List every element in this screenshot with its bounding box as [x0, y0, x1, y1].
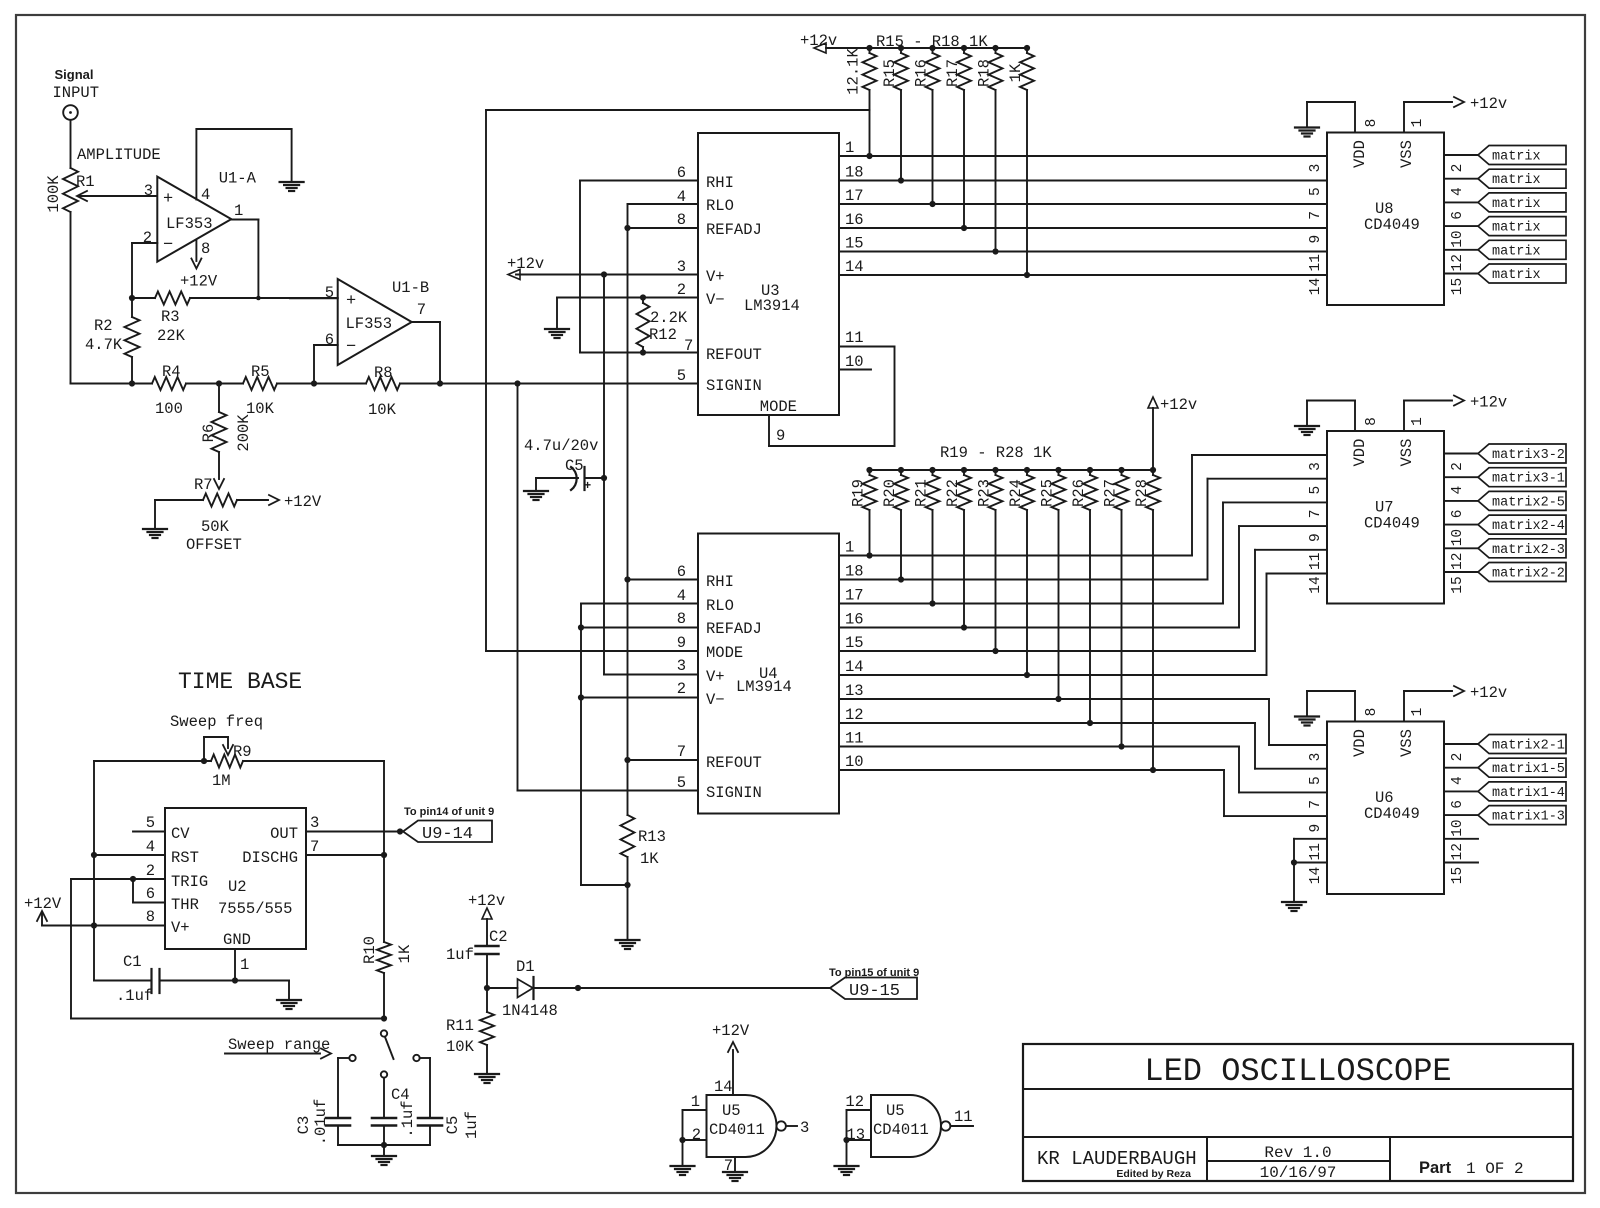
svg-text:matrix3-2: matrix3-2 — [1492, 448, 1565, 463]
svg-text:4.7K: 4.7K — [85, 336, 123, 354]
svg-text:1K: 1K — [640, 850, 659, 868]
svg-text:22K: 22K — [157, 327, 186, 345]
svg-text:3: 3 — [1308, 164, 1324, 173]
svg-text:TIME BASE: TIME BASE — [178, 669, 302, 695]
svg-text:matrix2-3: matrix2-3 — [1492, 543, 1565, 558]
svg-text:R2: R2 — [94, 317, 113, 335]
svg-text:18: 18 — [845, 563, 864, 581]
svg-text:7: 7 — [1308, 510, 1324, 519]
svg-text:6: 6 — [1450, 211, 1466, 220]
svg-text:3: 3 — [144, 182, 153, 200]
svg-text:matrix1-3: matrix1-3 — [1492, 810, 1565, 825]
svg-text:+12v: +12v — [1160, 396, 1197, 414]
svg-text:matrix: matrix — [1492, 197, 1541, 212]
svg-text:matrix3-1: matrix3-1 — [1492, 472, 1565, 487]
svg-text:6: 6 — [677, 164, 686, 182]
svg-text:4.7u/20v: 4.7u/20v — [524, 437, 598, 455]
svg-text:1: 1 — [1410, 708, 1426, 717]
svg-text:OFFSET: OFFSET — [186, 536, 242, 554]
svg-text:R27: R27 — [1102, 479, 1120, 507]
svg-text:100K: 100K — [45, 175, 63, 213]
svg-text:+12v: +12v — [1470, 95, 1507, 113]
svg-text:Sweep range: Sweep range — [228, 1036, 330, 1054]
svg-text:R26: R26 — [1070, 479, 1088, 507]
svg-text:U9-14: U9-14 — [422, 825, 473, 844]
svg-text:5: 5 — [1308, 187, 1324, 196]
svg-text:VSS: VSS — [1398, 140, 1416, 168]
svg-text:.1uf: .1uf — [399, 1100, 417, 1137]
svg-text:+12V: +12V — [284, 493, 322, 511]
svg-text:1K: 1K — [396, 944, 414, 963]
svg-text:17: 17 — [845, 187, 864, 205]
svg-text:1: 1 — [1410, 417, 1426, 426]
svg-text:1: 1 — [691, 1093, 700, 1111]
svg-text:200K: 200K — [235, 414, 253, 452]
svg-text:1K: 1K — [1007, 63, 1025, 82]
svg-text:R17: R17 — [944, 59, 962, 87]
svg-text:11: 11 — [1308, 553, 1324, 570]
svg-text:R24: R24 — [1007, 479, 1025, 507]
svg-text:12: 12 — [1450, 553, 1466, 570]
svg-text:12: 12 — [1450, 254, 1466, 271]
svg-text:VSS: VSS — [1398, 729, 1416, 757]
svg-text:100: 100 — [155, 400, 183, 418]
svg-text:MODE: MODE — [760, 398, 797, 416]
svg-text:16: 16 — [845, 611, 864, 629]
svg-text:LM3914: LM3914 — [744, 297, 800, 315]
svg-text:+12V: +12V — [180, 273, 218, 291]
svg-text:10: 10 — [845, 353, 864, 371]
svg-text:matrix1-5: matrix1-5 — [1492, 762, 1565, 777]
svg-text:C5: C5 — [444, 1116, 462, 1135]
svg-text:R13: R13 — [638, 828, 666, 846]
svg-text:4: 4 — [1450, 187, 1466, 196]
svg-text:4: 4 — [677, 188, 686, 206]
svg-text:7: 7 — [1308, 211, 1324, 220]
svg-text:7: 7 — [724, 1157, 733, 1175]
svg-text:R8: R8 — [374, 364, 393, 382]
svg-text:9: 9 — [1308, 533, 1324, 542]
svg-text:2.2K: 2.2K — [650, 309, 688, 327]
svg-text:3: 3 — [677, 657, 686, 675]
svg-text:3: 3 — [677, 258, 686, 276]
svg-text:REFADJ: REFADJ — [706, 221, 762, 239]
svg-text:10K: 10K — [446, 1038, 475, 1056]
svg-text:R6: R6 — [200, 424, 218, 443]
svg-text:Rev 1.0: Rev 1.0 — [1264, 1144, 1331, 1162]
svg-text:matrix2-2: matrix2-2 — [1492, 567, 1565, 582]
svg-text:R21: R21 — [913, 479, 931, 507]
svg-text:2: 2 — [1450, 753, 1466, 762]
svg-text:9: 9 — [776, 427, 785, 445]
svg-text:6: 6 — [677, 563, 686, 581]
svg-text:+12V: +12V — [24, 895, 62, 913]
svg-text:Sweep freq: Sweep freq — [170, 713, 263, 731]
svg-text:R16: R16 — [913, 59, 931, 87]
svg-text:14: 14 — [1308, 576, 1324, 593]
svg-text:V−: V− — [706, 291, 725, 309]
svg-text:VDD: VDD — [1351, 140, 1369, 168]
svg-text:R25: R25 — [1039, 479, 1057, 507]
svg-text:5: 5 — [1308, 776, 1324, 785]
svg-text:OUT: OUT — [270, 825, 298, 843]
svg-text:+12v: +12v — [507, 255, 544, 273]
svg-text:10K: 10K — [368, 401, 397, 419]
svg-text:+: + — [584, 479, 591, 493]
svg-text:matrix2-4: matrix2-4 — [1492, 519, 1565, 534]
svg-text:50K: 50K — [201, 518, 230, 536]
svg-text:+: + — [163, 190, 173, 209]
svg-text:5: 5 — [146, 814, 155, 832]
svg-text:CD4049: CD4049 — [1364, 805, 1420, 823]
svg-text:R10: R10 — [361, 936, 379, 964]
svg-text:MODE: MODE — [706, 644, 743, 662]
svg-text:LF353: LF353 — [166, 215, 213, 233]
svg-text:8: 8 — [677, 610, 686, 628]
svg-text:R5: R5 — [251, 363, 270, 381]
svg-text:RLO: RLO — [706, 597, 734, 615]
svg-text:RLO: RLO — [706, 197, 734, 215]
svg-text:10: 10 — [845, 753, 864, 771]
svg-text:14: 14 — [1308, 278, 1324, 295]
svg-text:R12: R12 — [649, 326, 677, 344]
svg-text:LM3914: LM3914 — [736, 678, 792, 696]
svg-text:18: 18 — [845, 164, 864, 182]
svg-text:To pin14 of unit 9: To pin14 of unit 9 — [404, 806, 494, 818]
svg-text:7: 7 — [310, 838, 319, 856]
svg-text:U2: U2 — [228, 878, 247, 896]
svg-text:1: 1 — [845, 539, 854, 557]
svg-text:11: 11 — [845, 730, 864, 748]
svg-text:10: 10 — [1450, 230, 1466, 247]
svg-text:DISCHG: DISCHG — [242, 849, 298, 867]
svg-text:4: 4 — [201, 186, 210, 204]
svg-text:3: 3 — [1308, 753, 1324, 762]
svg-text:6: 6 — [1450, 800, 1466, 809]
svg-text:13: 13 — [846, 1126, 865, 1144]
svg-text:5: 5 — [325, 284, 334, 302]
svg-text:VSS: VSS — [1398, 439, 1416, 467]
svg-text:C3: C3 — [295, 1116, 313, 1135]
svg-text:R20: R20 — [881, 479, 899, 507]
svg-text:−: − — [163, 236, 173, 255]
svg-text:14: 14 — [845, 658, 864, 676]
svg-text:matrix: matrix — [1492, 173, 1541, 188]
svg-text:REFOUT: REFOUT — [706, 346, 762, 364]
svg-text:R3: R3 — [161, 308, 180, 326]
svg-text:V+: V+ — [171, 919, 190, 937]
svg-text:U5: U5 — [886, 1102, 905, 1120]
svg-text:10: 10 — [1450, 529, 1466, 546]
svg-text:9: 9 — [677, 634, 686, 652]
svg-text:+12v: +12v — [1470, 394, 1507, 412]
svg-text:REFADJ: REFADJ — [706, 620, 762, 638]
svg-text:2: 2 — [146, 862, 155, 880]
svg-text:1: 1 — [1410, 119, 1426, 128]
svg-text:12: 12 — [845, 1093, 864, 1111]
svg-text:CD4011: CD4011 — [873, 1121, 929, 1139]
svg-text:8: 8 — [1364, 119, 1380, 128]
svg-text:matrix: matrix — [1492, 268, 1541, 283]
svg-text:1 OF 2: 1 OF 2 — [1466, 1160, 1524, 1178]
svg-text:LED OSCILLOSCOPE: LED OSCILLOSCOPE — [1144, 1053, 1451, 1090]
svg-text:C2: C2 — [489, 928, 508, 946]
svg-text:SIGNIN: SIGNIN — [706, 377, 762, 395]
svg-text:1: 1 — [845, 139, 854, 157]
svg-text:1: 1 — [240, 956, 249, 974]
svg-text:D1: D1 — [516, 958, 535, 976]
svg-text:Edited by Reza: Edited by Reza — [1116, 1168, 1191, 1180]
svg-text:9: 9 — [1308, 235, 1324, 244]
svg-text:U5: U5 — [722, 1102, 741, 1120]
svg-text:6: 6 — [146, 885, 155, 903]
svg-text:11: 11 — [954, 1108, 973, 1126]
svg-text:5: 5 — [677, 774, 686, 792]
svg-text:R19 - R28 1K: R19 - R28 1K — [940, 444, 1052, 462]
svg-text:AMPLITUDE: AMPLITUDE — [77, 146, 161, 164]
svg-text:GND: GND — [223, 931, 251, 949]
svg-text:17: 17 — [845, 587, 864, 605]
svg-text:2: 2 — [692, 1126, 701, 1144]
svg-text:Part: Part — [1419, 1159, 1452, 1177]
svg-text:12: 12 — [1450, 843, 1466, 860]
svg-text:RHI: RHI — [706, 174, 734, 192]
svg-text:4: 4 — [677, 587, 686, 605]
svg-text:matrix: matrix — [1492, 221, 1541, 236]
svg-text:VDD: VDD — [1351, 729, 1369, 757]
svg-text:R9: R9 — [233, 743, 252, 761]
svg-text:matrix1-4: matrix1-4 — [1492, 786, 1565, 801]
svg-text:R18: R18 — [976, 59, 994, 87]
svg-text:14: 14 — [714, 1078, 733, 1096]
svg-text:LF353: LF353 — [346, 315, 393, 333]
svg-text:V−: V− — [706, 691, 725, 709]
svg-text:4: 4 — [1450, 486, 1466, 495]
svg-text:7555/555: 7555/555 — [218, 900, 292, 918]
svg-text:CD4049: CD4049 — [1364, 216, 1420, 234]
svg-text:U9-15: U9-15 — [849, 982, 900, 1001]
svg-text:15: 15 — [1450, 576, 1466, 593]
svg-text:7: 7 — [684, 337, 693, 355]
svg-text:C1: C1 — [123, 953, 142, 971]
svg-text:8: 8 — [146, 908, 155, 926]
svg-text:1uf: 1uf — [463, 1111, 481, 1139]
svg-text:R7: R7 — [194, 476, 213, 494]
svg-text:THR: THR — [171, 896, 199, 914]
svg-text:6: 6 — [1450, 510, 1466, 519]
svg-text:+12V: +12V — [712, 1022, 750, 1040]
svg-text:1N4148: 1N4148 — [502, 1002, 558, 1020]
svg-text:10/16/97: 10/16/97 — [1260, 1164, 1337, 1182]
svg-text:V+: V+ — [706, 668, 725, 686]
svg-text:3: 3 — [310, 814, 319, 832]
svg-text:KR LAUDERBAUGH: KR LAUDERBAUGH — [1037, 1148, 1197, 1170]
svg-text:5: 5 — [1308, 486, 1324, 495]
svg-text:R11: R11 — [446, 1017, 474, 1035]
svg-text:CV: CV — [171, 825, 190, 843]
svg-text:15: 15 — [1450, 278, 1466, 295]
svg-text:2: 2 — [677, 281, 686, 299]
svg-text:6: 6 — [325, 331, 334, 349]
svg-text:matrix: matrix — [1492, 150, 1541, 165]
svg-text:R23: R23 — [976, 479, 994, 507]
svg-text:+: + — [346, 292, 356, 311]
svg-text:7: 7 — [677, 743, 686, 761]
svg-text:7: 7 — [1308, 800, 1324, 809]
svg-text:SIGNIN: SIGNIN — [706, 784, 762, 802]
svg-text:8: 8 — [677, 211, 686, 229]
svg-text:R1: R1 — [76, 173, 95, 191]
svg-text:REFOUT: REFOUT — [706, 754, 762, 772]
svg-text:4: 4 — [1450, 776, 1466, 785]
svg-text:8: 8 — [1364, 417, 1380, 426]
svg-text:1M: 1M — [212, 772, 231, 790]
svg-text:CD4011: CD4011 — [709, 1121, 765, 1139]
svg-text:2: 2 — [677, 680, 686, 698]
svg-text:R22: R22 — [944, 479, 962, 507]
svg-text:R28: R28 — [1133, 479, 1151, 507]
svg-text:U1-B: U1-B — [392, 279, 429, 297]
svg-text:8: 8 — [201, 240, 210, 258]
svg-text:13: 13 — [845, 682, 864, 700]
svg-text:5: 5 — [677, 367, 686, 385]
svg-text:matrix2-1: matrix2-1 — [1492, 739, 1565, 754]
svg-text:11: 11 — [1308, 843, 1324, 860]
svg-text:15: 15 — [845, 235, 864, 253]
svg-text:1: 1 — [234, 202, 243, 220]
svg-text:U1-A: U1-A — [219, 170, 257, 188]
svg-text:3: 3 — [1308, 462, 1324, 471]
svg-text:CD4049: CD4049 — [1364, 515, 1420, 533]
svg-text:16: 16 — [845, 211, 864, 229]
svg-text:12: 12 — [845, 706, 864, 724]
svg-text:7: 7 — [417, 301, 426, 319]
svg-text:TRIG: TRIG — [171, 873, 208, 891]
svg-text:matrix2-5: matrix2-5 — [1492, 495, 1565, 510]
svg-text:V+: V+ — [706, 268, 725, 286]
svg-text:−: − — [346, 338, 356, 357]
svg-text:R19: R19 — [850, 479, 868, 507]
svg-text:matrix: matrix — [1492, 244, 1541, 259]
svg-text:3: 3 — [800, 1119, 809, 1137]
svg-text:4: 4 — [146, 838, 155, 856]
svg-text:12.1K: 12.1K — [845, 48, 863, 95]
svg-text:2: 2 — [1450, 164, 1466, 173]
svg-text:RHI: RHI — [706, 573, 734, 591]
svg-text:14: 14 — [845, 258, 864, 276]
svg-text:2: 2 — [1450, 462, 1466, 471]
svg-text:15: 15 — [845, 634, 864, 652]
svg-text:14: 14 — [1308, 867, 1324, 884]
svg-text:1uf: 1uf — [446, 946, 474, 964]
svg-text:10: 10 — [1450, 819, 1466, 836]
svg-text:.01uf: .01uf — [312, 1099, 330, 1146]
svg-text:R15: R15 — [881, 59, 899, 87]
svg-text:11: 11 — [1308, 254, 1324, 271]
svg-text:Signal: Signal — [54, 67, 93, 82]
svg-text:9: 9 — [1308, 824, 1324, 833]
svg-text:15: 15 — [1450, 867, 1466, 884]
svg-text:.1uf: .1uf — [116, 987, 153, 1005]
svg-text:R4: R4 — [162, 363, 181, 381]
svg-text:INPUT: INPUT — [53, 84, 100, 102]
svg-text:8: 8 — [1364, 708, 1380, 717]
svg-text:+12v: +12v — [1470, 684, 1507, 702]
svg-text:2: 2 — [143, 229, 152, 247]
svg-text:11: 11 — [845, 329, 864, 347]
svg-text:VDD: VDD — [1351, 439, 1369, 467]
svg-text:RST: RST — [171, 849, 199, 867]
